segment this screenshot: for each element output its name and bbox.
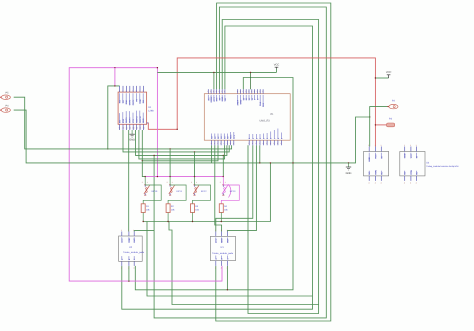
svg-text:9: 9 bbox=[119, 127, 120, 130]
svg-text:IN4: IN4 bbox=[118, 119, 121, 123]
node label R4 bbox=[224, 205, 228, 211]
node junction bbox=[348, 162, 349, 163]
wire VCC red bbox=[177, 58, 375, 147]
svg-text:GND: GND bbox=[368, 157, 371, 162]
svg-text:1: 1 bbox=[196, 181, 197, 184]
svg-text:7: 7 bbox=[273, 137, 276, 139]
svg-text:4: 4 bbox=[211, 142, 212, 145]
resistor R3 bbox=[191, 204, 195, 222]
switch KEY1 bbox=[168, 177, 186, 204]
svg-text:1: 1 bbox=[172, 181, 173, 184]
svg-text:4: 4 bbox=[233, 142, 234, 145]
svg-text:8: 8 bbox=[213, 90, 214, 93]
svg-text:A: A bbox=[121, 258, 124, 260]
svg-text:3: 3 bbox=[248, 90, 249, 93]
svg-text:IN2: IN2 bbox=[122, 99, 125, 103]
svg-text:IN: IN bbox=[380, 156, 383, 159]
op-amp U6 relay module bbox=[364, 144, 389, 185]
wire bbox=[142, 130, 218, 161]
node junction bbox=[223, 155, 224, 156]
switch KEY2 bbox=[193, 177, 211, 204]
svg-text:R4: R4 bbox=[224, 205, 228, 208]
svg-text:IOREF: IOREF bbox=[210, 95, 213, 102]
node junction bbox=[153, 155, 154, 156]
svg-text:UNO_R3: UNO_R3 bbox=[260, 119, 271, 122]
svg-text:4: 4 bbox=[133, 267, 134, 270]
svg-text:A0: A0 bbox=[211, 136, 214, 139]
svg-text:R3: R3 bbox=[195, 205, 199, 208]
svg-text:4: 4 bbox=[128, 267, 129, 270]
node junction bbox=[167, 221, 168, 222]
svg-text:GND: GND bbox=[142, 118, 145, 123]
svg-text:6: 6 bbox=[277, 142, 278, 145]
wire bbox=[375, 77, 388, 79]
svg-text:3: 3 bbox=[254, 90, 255, 93]
svg-text:KEY1: KEY1 bbox=[177, 190, 183, 193]
svg-text:4: 4 bbox=[263, 137, 266, 139]
svg-text:P1: P1 bbox=[271, 113, 275, 116]
svg-text:8: 8 bbox=[216, 90, 217, 93]
svg-text:2: 2 bbox=[191, 181, 192, 184]
svg-text:2: 2 bbox=[167, 181, 168, 184]
wire bbox=[136, 130, 227, 155]
svg-text:15: 15 bbox=[139, 127, 141, 130]
svg-text:SENSA: SENSA bbox=[135, 115, 138, 123]
svg-text:VCC: VCC bbox=[410, 153, 413, 158]
wire bbox=[128, 130, 130, 232]
svg-text:C: C bbox=[133, 258, 136, 260]
svg-text:NC: NC bbox=[415, 171, 418, 175]
svg-text:NC: NC bbox=[207, 97, 210, 101]
node label R3 bbox=[195, 205, 199, 211]
svg-text:A: A bbox=[215, 258, 218, 260]
svg-text:3: 3 bbox=[251, 90, 252, 93]
svg-text:IN1: IN1 bbox=[118, 99, 121, 103]
svg-text:2: 2 bbox=[255, 137, 258, 139]
svg-text:GND: GND bbox=[404, 153, 407, 158]
svg-text:4: 4 bbox=[215, 267, 216, 270]
svg-text:3: 3 bbox=[240, 90, 241, 93]
power VCC bbox=[386, 71, 392, 78]
svg-text:3: 3 bbox=[245, 90, 246, 93]
svg-text:R1: R1 bbox=[146, 205, 150, 208]
wire bbox=[147, 222, 313, 297]
svg-text:2: 2 bbox=[142, 181, 143, 184]
wire bbox=[213, 72, 215, 89]
node label KEY1 bbox=[167, 181, 183, 193]
node label R2 bbox=[171, 205, 175, 211]
svg-text:1: 1 bbox=[221, 229, 222, 232]
wire bbox=[369, 117, 371, 147]
svg-text:4: 4 bbox=[375, 182, 376, 185]
node junction bbox=[107, 148, 108, 149]
svg-text:4: 4 bbox=[404, 182, 405, 185]
node label U1 bbox=[148, 106, 154, 112]
wire bbox=[157, 71, 276, 73]
svg-text:6: 6 bbox=[259, 142, 260, 145]
svg-text:4: 4 bbox=[416, 182, 417, 185]
resistor R2 bbox=[166, 204, 170, 222]
op-amp P1 UNO_R3 bbox=[204, 89, 290, 145]
svg-text:COM: COM bbox=[375, 170, 378, 175]
svg-text:3: 3 bbox=[259, 90, 260, 93]
svg-text:NO: NO bbox=[404, 171, 407, 175]
node label R1 bbox=[146, 205, 150, 211]
wire bbox=[276, 69, 278, 73]
wire bbox=[259, 145, 261, 163]
svg-text:1: 1 bbox=[404, 144, 405, 147]
svg-text:13: 13 bbox=[132, 127, 134, 130]
wire bbox=[154, 7, 326, 318]
svg-text:1: 1 bbox=[375, 144, 376, 147]
connector P2 bbox=[387, 99, 398, 108]
svg-text:16: 16 bbox=[143, 127, 145, 130]
node junction bbox=[128, 280, 129, 281]
svg-text:GND: GND bbox=[139, 99, 142, 104]
svg-text:2: 2 bbox=[220, 181, 221, 184]
svg-text:VCC: VCC bbox=[121, 238, 124, 243]
svg-text:3: 3 bbox=[257, 90, 258, 93]
svg-text:5: 5 bbox=[266, 137, 269, 139]
svg-text:COM: COM bbox=[410, 170, 413, 175]
node junction bbox=[192, 221, 193, 222]
svg-text:4: 4 bbox=[227, 267, 228, 270]
wire bbox=[143, 163, 270, 222]
svg-text:ENA: ENA bbox=[125, 99, 128, 104]
svg-text:1: 1 bbox=[227, 229, 228, 232]
wire bbox=[122, 26, 313, 309]
node label KEY0 bbox=[142, 181, 158, 193]
svg-text:RX1: RX1 bbox=[262, 102, 265, 107]
wire bbox=[114, 68, 116, 86]
node junction bbox=[369, 116, 370, 117]
svg-text:GND: GND bbox=[221, 96, 224, 101]
node junction bbox=[213, 72, 214, 73]
svg-text:5V: 5V bbox=[218, 97, 221, 100]
wire bbox=[147, 123, 178, 129]
wire bbox=[108, 86, 120, 149]
svg-text:U3: U3 bbox=[221, 246, 225, 249]
svg-text:4: 4 bbox=[227, 142, 228, 145]
svg-text:8: 8 bbox=[143, 89, 144, 92]
svg-text:B: B bbox=[128, 258, 131, 260]
svg-text:GND: GND bbox=[240, 99, 243, 104]
svg-text:VCC: VCC bbox=[215, 238, 218, 243]
node junction bbox=[270, 162, 271, 163]
wire bbox=[375, 124, 386, 126]
svg-text:6: 6 bbox=[256, 142, 257, 145]
svg-text:GND: GND bbox=[346, 172, 352, 175]
svg-text:9: 9 bbox=[280, 137, 283, 139]
node junction bbox=[114, 67, 115, 68]
svg-text:10: 10 bbox=[251, 97, 254, 100]
node junction bbox=[223, 176, 224, 177]
svg-text:1: 1 bbox=[252, 137, 255, 139]
svg-text:12: 12 bbox=[129, 127, 131, 130]
svg-text:10k: 10k bbox=[146, 208, 150, 211]
svg-text:P4: P4 bbox=[6, 104, 10, 107]
svg-text:OUT4: OUT4 bbox=[129, 117, 132, 123]
node junction bbox=[177, 129, 178, 130]
svg-text:1: 1 bbox=[381, 144, 382, 147]
svg-text:1: 1 bbox=[225, 181, 226, 184]
svg-text:8: 8 bbox=[221, 90, 222, 93]
svg-text:11: 11 bbox=[248, 97, 251, 100]
wire bbox=[216, 3, 331, 321]
wire bbox=[14, 110, 370, 163]
svg-text:KEY2: KEY2 bbox=[201, 190, 207, 193]
svg-text:3: 3 bbox=[237, 90, 238, 93]
resistor R4 bbox=[219, 204, 223, 222]
svg-text:4: 4 bbox=[220, 142, 221, 145]
svg-text:OUT1: OUT1 bbox=[129, 99, 132, 105]
svg-text:10: 10 bbox=[122, 127, 124, 130]
svg-text:8: 8 bbox=[256, 98, 259, 100]
connector P4 bbox=[0, 104, 10, 112]
wire bbox=[128, 266, 130, 281]
svg-text:1: 1 bbox=[368, 144, 369, 147]
op-amp U4 relay module bbox=[400, 144, 425, 185]
svg-text:4: 4 bbox=[230, 142, 231, 145]
svg-text:1: 1 bbox=[410, 144, 411, 147]
svg-text:R2: R2 bbox=[171, 205, 175, 208]
svg-text:Trabaj_module hercules herlip: Trabaj_module hercules herlip H04 bbox=[426, 165, 459, 168]
wire bus bbox=[145, 176, 223, 178]
svg-text:1: 1 bbox=[416, 144, 417, 147]
svg-text:8: 8 bbox=[277, 137, 280, 139]
svg-text:IN3: IN3 bbox=[142, 99, 145, 103]
svg-text:L298: L298 bbox=[148, 109, 154, 112]
wire bbox=[14, 97, 232, 149]
svg-text:4: 4 bbox=[224, 142, 225, 145]
svg-text:KEY0: KEY0 bbox=[152, 190, 158, 193]
node junction bbox=[194, 151, 195, 152]
connector P3 bbox=[387, 118, 395, 127]
svg-text:TX0: TX0 bbox=[259, 101, 262, 106]
svg-text:P5: P5 bbox=[6, 91, 10, 94]
node junction bbox=[157, 67, 158, 68]
svg-text:OUT3: OUT3 bbox=[125, 117, 128, 123]
node junction bbox=[375, 124, 376, 125]
node junction bbox=[114, 85, 115, 86]
op-amp U3 Trseke_module bbox=[211, 229, 236, 270]
node junction bbox=[375, 77, 376, 78]
svg-text:6: 6 bbox=[263, 142, 264, 145]
svg-text:NC: NC bbox=[380, 171, 383, 175]
svg-text:GND: GND bbox=[128, 238, 131, 243]
svg-text:OUT2: OUT2 bbox=[132, 99, 135, 105]
svg-text:2: 2 bbox=[122, 89, 123, 92]
node label U3 bbox=[212, 246, 234, 255]
svg-text:6: 6 bbox=[248, 142, 249, 145]
svg-text:3: 3 bbox=[243, 90, 244, 93]
svg-text:9: 9 bbox=[254, 98, 257, 100]
node junction bbox=[292, 162, 293, 163]
node junction bbox=[250, 72, 251, 73]
svg-text:B: B bbox=[221, 258, 224, 260]
svg-text:8: 8 bbox=[210, 90, 211, 93]
ground bbox=[129, 130, 135, 142]
svg-text:3V3: 3V3 bbox=[216, 97, 219, 102]
svg-text:OUT: OUT bbox=[226, 238, 229, 243]
node label P1 bbox=[260, 113, 275, 122]
svg-text:4: 4 bbox=[129, 89, 130, 92]
svg-text:8: 8 bbox=[208, 90, 209, 93]
svg-text:KEY3: KEY3 bbox=[230, 190, 236, 193]
wire bbox=[226, 266, 228, 290]
svg-text:12: 12 bbox=[245, 97, 248, 100]
wire bbox=[194, 152, 196, 177]
svg-text:ENB: ENB bbox=[122, 118, 125, 123]
svg-text:1: 1 bbox=[215, 229, 216, 232]
svg-text:A5: A5 bbox=[227, 136, 230, 139]
svg-text:6: 6 bbox=[266, 142, 267, 145]
wire bbox=[169, 222, 319, 305]
svg-text:4: 4 bbox=[214, 142, 215, 145]
svg-text:SDA: SDA bbox=[230, 134, 233, 139]
wire bbox=[215, 145, 222, 231]
node junction bbox=[157, 176, 158, 177]
wire bbox=[142, 161, 145, 177]
svg-text:14: 14 bbox=[136, 127, 138, 130]
svg-text:3: 3 bbox=[262, 90, 263, 93]
switch KEY3 bbox=[221, 177, 239, 204]
wire bus bbox=[69, 68, 222, 281]
svg-text:A4: A4 bbox=[223, 136, 226, 139]
svg-text:13: 13 bbox=[242, 97, 245, 100]
power VCC bbox=[274, 64, 280, 69]
wire bbox=[134, 230, 154, 233]
op-amp U2 Trseke_module bbox=[119, 229, 143, 270]
wire bbox=[227, 145, 256, 231]
svg-text:6: 6 bbox=[274, 142, 275, 145]
svg-text:8: 8 bbox=[219, 90, 220, 93]
svg-text:OUT: OUT bbox=[133, 238, 136, 243]
svg-text:4: 4 bbox=[121, 267, 122, 270]
svg-text:4: 4 bbox=[221, 267, 222, 270]
svg-text:4: 4 bbox=[368, 182, 369, 185]
wire bbox=[211, 145, 213, 163]
svg-text:AREF: AREF bbox=[237, 99, 240, 105]
wire bbox=[222, 155, 224, 176]
svg-text:10k: 10k bbox=[224, 208, 228, 211]
svg-text:GND: GND bbox=[129, 139, 135, 142]
svg-text:NO: NO bbox=[368, 171, 371, 175]
svg-text:4: 4 bbox=[381, 182, 382, 185]
svg-text:GND: GND bbox=[221, 238, 224, 243]
wire bbox=[139, 130, 225, 159]
svg-text:Trseke_module_pado: Trseke_module_pado bbox=[212, 252, 234, 255]
svg-text:6: 6 bbox=[270, 137, 273, 139]
svg-text:VCC: VCC bbox=[274, 64, 280, 67]
svg-text:VS: VS bbox=[135, 98, 138, 101]
svg-text:10k: 10k bbox=[171, 208, 175, 211]
switch KEY0 bbox=[143, 177, 161, 204]
svg-text:0: 0 bbox=[248, 137, 251, 139]
node label U4 bbox=[426, 162, 459, 169]
node label KEY3 bbox=[220, 181, 236, 193]
wire bbox=[123, 130, 229, 152]
wire bbox=[135, 78, 293, 290]
svg-text:7: 7 bbox=[139, 89, 140, 92]
wire bbox=[370, 107, 389, 117]
svg-text:3: 3 bbox=[259, 137, 262, 139]
node junction bbox=[169, 176, 170, 177]
node label U2 bbox=[123, 246, 145, 254]
svg-text:A1: A1 bbox=[214, 136, 217, 139]
svg-text:A3: A3 bbox=[220, 136, 223, 139]
svg-text:1: 1 bbox=[147, 181, 148, 184]
node junction bbox=[227, 289, 228, 290]
svg-text:3: 3 bbox=[126, 89, 127, 92]
wire bbox=[216, 145, 253, 231]
svg-text:VSS: VSS bbox=[132, 118, 135, 123]
svg-text:P3: P3 bbox=[389, 118, 393, 121]
node label KEY2 bbox=[191, 181, 207, 193]
wire bbox=[169, 149, 171, 177]
svg-text:SCL: SCL bbox=[233, 134, 236, 139]
svg-text:P2: P2 bbox=[392, 99, 396, 102]
svg-text:10k: 10k bbox=[195, 208, 199, 211]
node junction bbox=[194, 176, 195, 177]
svg-text:8: 8 bbox=[224, 90, 225, 93]
svg-text:5: 5 bbox=[132, 89, 133, 92]
wire bbox=[250, 72, 252, 89]
svg-text:6: 6 bbox=[252, 142, 253, 145]
svg-text:6: 6 bbox=[281, 142, 282, 145]
svg-text:1: 1 bbox=[128, 229, 129, 232]
node junction bbox=[145, 176, 146, 177]
svg-text:VCC: VCC bbox=[375, 154, 378, 159]
svg-text:4: 4 bbox=[410, 182, 411, 185]
svg-text:6: 6 bbox=[136, 89, 137, 92]
svg-text:U4: U4 bbox=[426, 162, 430, 165]
node junction bbox=[259, 162, 260, 163]
svg-text:4: 4 bbox=[217, 142, 218, 145]
svg-text:VIN: VIN bbox=[224, 97, 227, 101]
wire bbox=[222, 20, 318, 314]
svg-text:A2: A2 bbox=[217, 136, 220, 139]
svg-text:6: 6 bbox=[270, 142, 271, 145]
svg-text:IN: IN bbox=[415, 156, 418, 159]
svg-text:U2: U2 bbox=[129, 246, 133, 249]
op-amp U1 L298 bbox=[118, 86, 148, 130]
connector P5 bbox=[0, 91, 10, 99]
svg-text:1: 1 bbox=[133, 229, 134, 232]
svg-text:1: 1 bbox=[119, 89, 120, 92]
svg-text:SENSB: SENSB bbox=[139, 115, 142, 123]
svg-text:11: 11 bbox=[126, 127, 128, 130]
svg-text:C: C bbox=[226, 258, 229, 260]
node junction bbox=[142, 160, 143, 161]
svg-text:1: 1 bbox=[121, 229, 122, 232]
resistor R1 bbox=[141, 204, 145, 222]
node junction bbox=[221, 221, 222, 222]
node junction bbox=[169, 148, 170, 149]
svg-text:VCC: VCC bbox=[386, 71, 392, 74]
ground bbox=[346, 163, 352, 175]
node junction bbox=[143, 221, 144, 222]
svg-text:RST: RST bbox=[213, 97, 216, 102]
svg-text:Trseke_module_pado: Trseke_module_pado bbox=[123, 251, 145, 254]
wire bbox=[115, 68, 157, 177]
